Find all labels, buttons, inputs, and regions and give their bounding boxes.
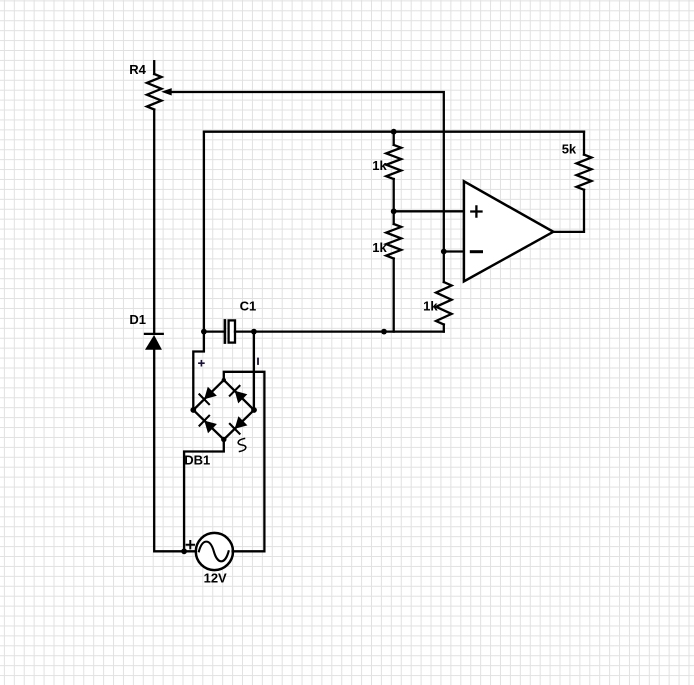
- svg-text:D1: D1: [129, 312, 146, 327]
- junction - input node: [441, 249, 447, 255]
- svg-text:12V: 12V: [204, 570, 227, 585]
- resistor 5k (feedback): [577, 132, 592, 190]
- svg-text:R4: R4: [129, 62, 146, 77]
- junction C1 right: [251, 329, 257, 335]
- junction on bottom node wire: [381, 329, 387, 335]
- label - (bridge minus output, rotated tick): [257, 359, 259, 365]
- wire bridge left corner up to C1 left node: [193, 332, 204, 410]
- op-amp U1: [464, 181, 553, 281]
- wire R4 to D1: [153, 110, 155, 334]
- label + (source): [187, 541, 194, 548]
- junction top wire / 1k divider: [391, 129, 397, 135]
- diode D1: [145, 334, 163, 350]
- wire C1 right to 1k bottom (node wire): [254, 330, 444, 332]
- label ~ (AC squiggle): [238, 439, 246, 452]
- junction bridge left corner: [190, 407, 196, 413]
- junction bridge bottom corner: [221, 437, 226, 442]
- resistor 1k (top of divider): [386, 132, 401, 212]
- wire + input: [394, 210, 464, 212]
- bridge rectifier DB1: [193, 380, 254, 440]
- junction at source +: [181, 548, 187, 554]
- label + (bridge plus output): [199, 361, 204, 366]
- junction C1 left: [201, 329, 207, 335]
- wire source to bridge AC right: [224, 372, 265, 552]
- svg-text:1k: 1k: [372, 240, 387, 255]
- svg-text:1k: 1k: [423, 298, 438, 313]
- svg-text:5k: 5k: [562, 142, 577, 157]
- svg-text:C1: C1: [240, 298, 257, 313]
- svg-text:DB1: DB1: [184, 452, 210, 467]
- svg-text:1k: 1k: [372, 158, 387, 173]
- wire D1 to source: [154, 350, 196, 551]
- wire - input: [444, 250, 464, 252]
- wire C1 right down to bridge right corner: [253, 332, 255, 410]
- wire op-amp output: [553, 190, 584, 232]
- wiper arrow wire (feedback to R4): [161, 88, 444, 251]
- resistor 1k (bottom of divider): [386, 211, 401, 331]
- wire inner-left vertical and top wire to 5k: [204, 132, 584, 332]
- capacitor C1: [205, 320, 254, 342]
- resistor 1k (feedback lower): [436, 252, 452, 332]
- resistor R4: [147, 61, 162, 109]
- wire bridge bottom to source: [184, 440, 224, 552]
- junction bridge top corner: [222, 378, 226, 382]
- AC source 12V: [196, 533, 233, 570]
- junction bridge right corner: [251, 407, 257, 413]
- junction divider mid node: [391, 208, 397, 214]
